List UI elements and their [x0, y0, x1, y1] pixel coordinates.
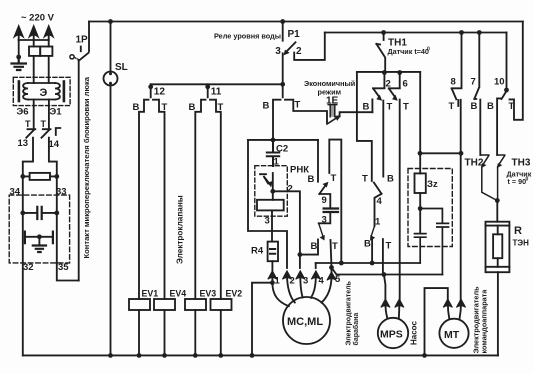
svg-text:В: В [311, 241, 318, 252]
node link c8 [459, 151, 464, 156]
contact 2 B tick [371, 99, 373, 112]
wire 14 down [49, 138, 57, 177]
svg-text:1: 1 [375, 217, 381, 228]
svg-text:Т: Т [41, 119, 47, 129]
wire bus to SL [110, 22, 112, 72]
wire MPS left into circle [385, 303, 387, 319]
timer motor MT [439, 319, 468, 348]
node switch 12 [148, 84, 153, 89]
arrow motor1 [268, 271, 277, 279]
arrow MT left [443, 299, 452, 307]
wire P1-3 down [282, 53, 284, 97]
wire 34 down [22, 176, 24, 263]
node 34 top [20, 174, 25, 179]
switch 1E plunger [330, 105, 335, 117]
wire motor1 into circle [272, 283, 288, 307]
contact 1 T tick down [382, 239, 384, 274]
wire plug to filter R [48, 40, 50, 83]
contact 10 blade [502, 92, 507, 100]
svg-text:9: 9 [322, 195, 327, 206]
svg-text:Т: Т [449, 101, 455, 112]
column1 B top wire [317, 140, 319, 182]
program row bus [151, 83, 283, 85]
node RNK 2 [270, 189, 275, 194]
wire plug to filter L [33, 40, 35, 83]
wire 35 to door switch [57, 263, 79, 281]
svg-text:32: 32 [23, 262, 34, 273]
node C2 junction [271, 138, 276, 143]
contact 6 blade [389, 88, 400, 97]
svg-text:Т: Т [509, 101, 515, 112]
wire motor3 into circle [300, 274, 302, 298]
svg-text:Э1: Э1 [50, 107, 63, 118]
wire RNK blade to node2 [272, 173, 274, 191]
node contact7 [477, 30, 482, 35]
mains arrow M [30, 27, 38, 41]
3z box dashed [408, 169, 452, 247]
svg-text:Т: Т [332, 241, 338, 252]
svg-text:Насос: Насос [410, 321, 419, 345]
feed row to contacts 2 6 [357, 71, 420, 73]
capacitor bridge plates [37, 207, 41, 219]
svg-text:MPS: MPS [380, 329, 403, 341]
contact 2 stub [383, 73, 385, 89]
svg-text:В: В [471, 101, 478, 112]
svg-text:Т: Т [25, 119, 31, 129]
solenoid valve EV3 [185, 299, 206, 310]
contact 10 B bracket [497, 98, 501, 155]
wire 32 to bottom bus [22, 263, 24, 356]
svg-text:3: 3 [275, 46, 281, 57]
inductor winding L [23, 83, 28, 100]
sub bus [325, 32, 507, 34]
wire junction to heater [496, 201, 498, 222]
svg-text:МТ: МТ [444, 329, 460, 341]
wire EV1 to bus [138, 310, 140, 355]
wire line1 to motor4 [315, 263, 317, 268]
switch 1P actuator [70, 55, 74, 59]
svg-text:EV2: EV2 [226, 289, 243, 299]
node contact6 [397, 70, 402, 75]
svg-text:Э: Э [40, 87, 48, 99]
node ground [16, 55, 21, 60]
arrow MPS right [395, 299, 404, 307]
svg-text:1: 1 [275, 276, 281, 287]
ground 2 [33, 246, 46, 253]
node TH1 [381, 30, 386, 35]
svg-text:12: 12 [154, 87, 166, 98]
svg-text:2: 2 [288, 184, 293, 195]
wire R4 to motor1 [271, 261, 273, 283]
mains header wire [19, 39, 49, 41]
arrow motor5 [327, 272, 336, 280]
svg-text:EV1: EV1 [142, 289, 159, 299]
relay contact P1 [287, 42, 296, 51]
connector block X1 [29, 47, 40, 56]
wire MT left [425, 288, 448, 355]
selector below P1 contact B [273, 100, 281, 140]
wire SL to bottom bus [110, 86, 112, 356]
switch 11 contact B [195, 100, 205, 299]
top bus [89, 21, 523, 23]
wire contact8 to MT [460, 100, 462, 303]
contact 8 [452, 33, 462, 107]
wire RNK3 to R4 [271, 210, 273, 241]
capacitor 3z right [420, 209, 448, 275]
svg-text:ТН3: ТН3 [512, 158, 531, 169]
filter box dashed [13, 77, 70, 105]
svg-text:ТЭН: ТЭН [513, 239, 530, 248]
contact 4 blade [374, 183, 382, 194]
svg-text:Электродвигатель: Электродвигатель [346, 280, 353, 345]
capacitor C2 [267, 140, 279, 166]
svg-text:3: 3 [265, 216, 270, 227]
svg-text:Т: Т [362, 174, 368, 185]
svg-text:В: В [189, 102, 196, 113]
node line2 MPS [382, 272, 387, 277]
wire feedrow to T top col2 [357, 72, 372, 181]
wire 3z to caps [419, 193, 421, 233]
resistor 3z [415, 173, 426, 193]
solenoid valve EV4 [154, 299, 175, 310]
RNK contact blade [260, 174, 272, 185]
wire filter to contact14 [48, 100, 50, 128]
svg-text:EV4: EV4 [170, 289, 187, 299]
svg-text:Р1: Р1 [288, 29, 301, 40]
wire heater to bus [497, 272, 499, 355]
svg-text:Т: Т [295, 100, 301, 111]
lamp SL [104, 72, 118, 86]
pump MPS [378, 318, 408, 348]
node EV1 bus [137, 353, 142, 358]
resistor R4 [268, 242, 278, 262]
capacitor bridge wire [23, 212, 57, 214]
ground [12, 57, 26, 70]
relay coil RNK [257, 200, 284, 211]
capacitor col1 [324, 209, 338, 213]
wire 13 down [23, 138, 33, 177]
switch 1P blade [79, 47, 89, 61]
node motor1 bus [250, 353, 255, 358]
svg-text:3: 3 [322, 215, 327, 226]
svg-text:11: 11 [211, 87, 222, 98]
svg-text:SL: SL [115, 62, 128, 73]
node EV2 bus [218, 353, 223, 358]
arrow motor3 [296, 271, 305, 279]
node SL bottom [108, 353, 113, 358]
wire bus to P1 [282, 22, 284, 41]
line2 wire [332, 268, 443, 275]
wire contact4 to contact1 [375, 194, 382, 226]
svg-text:В: В [364, 239, 371, 250]
svg-text:Реле уровня воды: Реле уровня воды [214, 32, 281, 41]
node motor1 [270, 280, 275, 285]
wire contact7 to TH2 [479, 100, 481, 155]
contact 3 B tick down [317, 240, 319, 250]
svg-text:34: 34 [10, 187, 21, 198]
connector block X2 [40, 47, 52, 56]
inductor winding R [55, 83, 60, 100]
svg-text:2: 2 [290, 276, 295, 287]
wire motor5 stub [331, 268, 333, 273]
switch 12 contact B [139, 100, 149, 299]
motor MC ML [283, 297, 330, 344]
node SL top [108, 19, 113, 24]
svg-text:В: В [133, 102, 140, 113]
wire MPS right into circle [398, 303, 401, 319]
svg-text:4: 4 [319, 276, 325, 287]
svg-text:MC,ML: MC,ML [287, 316, 323, 328]
node line1 col2B [370, 261, 375, 266]
mains arrow L [15, 27, 23, 41]
wire 3z to c8 line [420, 152, 461, 154]
svg-text:~ 220 V: ~ 220 V [21, 13, 55, 24]
bottom bus [23, 354, 498, 356]
svg-text:t = 90: t = 90 [508, 177, 527, 186]
switch 12 contact T [153, 100, 165, 299]
svg-text:6: 6 [403, 79, 408, 90]
node heater top [495, 198, 500, 203]
svg-text:Т: Т [162, 102, 168, 113]
svg-text:барабана: барабана [352, 313, 360, 346]
switch 1E blade [327, 118, 337, 124]
wire cap to contact3 [319, 212, 331, 223]
wire motor1 to bus [252, 283, 272, 356]
svg-text:13: 13 [18, 138, 29, 149]
wire MT left into circle [448, 303, 450, 319]
arrow MT right [456, 299, 465, 307]
solenoid valve EV1 [129, 299, 150, 310]
capacitor pair to ground plates [25, 232, 53, 244]
wire motor2 into circle [287, 274, 295, 303]
switch 11 stub [207, 84, 209, 97]
wire RNK coil top [272, 191, 274, 200]
svg-text:РНК: РНК [290, 165, 309, 176]
thermostat TH3 [497, 155, 505, 201]
svg-text:R4: R4 [251, 246, 264, 257]
switch 12 stub [150, 84, 152, 97]
svg-text:2: 2 [296, 46, 302, 57]
wire C2 row [248, 139, 318, 141]
contact 1 B tick down [371, 240, 373, 264]
svg-text:Э6: Э6 [17, 107, 29, 118]
svg-text:0: 0 [427, 47, 430, 53]
contact 10 feed [506, 33, 508, 90]
thermostat TH1 [376, 33, 385, 73]
wire 1E out [340, 112, 373, 116]
svg-text:10: 10 [494, 77, 505, 88]
node EV3 bus [193, 353, 198, 358]
wire EV4 to bus [164, 310, 166, 355]
node contact10 [504, 88, 509, 93]
contact 3 blade [319, 223, 324, 239]
svg-text:5: 5 [335, 274, 341, 285]
wire MT right into circle [460, 303, 462, 319]
mains arrow R [45, 27, 53, 41]
resistor 3z feed [419, 72, 421, 173]
contact 6 T wire down to MPS [399, 100, 401, 303]
wire resistor leads [23, 175, 57, 177]
wire MPS left [384, 275, 386, 306]
suppressor box dashed [9, 195, 69, 263]
filter Э core R [63, 82, 66, 102]
wire 1P down [78, 61, 80, 281]
node P1 top [280, 19, 285, 24]
node EV4 bus [162, 353, 167, 358]
node cap R [54, 211, 59, 216]
node motor5 [329, 265, 334, 270]
wire filter to contact13 [33, 100, 35, 128]
heater R inner [493, 234, 502, 258]
svg-text:EV3: EV3 [200, 289, 217, 299]
node cap mid [37, 234, 42, 239]
svg-text:4: 4 [377, 196, 383, 207]
node 33 top [54, 174, 59, 179]
wire P1-2 to sub bus [294, 33, 325, 60]
contact 3 T tick down [331, 240, 332, 268]
switch 11 contact T [210, 100, 221, 299]
contact 2 blade [373, 88, 384, 97]
node 3z caps [418, 206, 423, 211]
svg-text:Датчик t=40: Датчик t=40 [388, 47, 429, 56]
svg-text:0: 0 [526, 177, 529, 183]
svg-text:В: В [363, 102, 370, 113]
contact 1 blade [371, 226, 375, 240]
wire motor3 stub [299, 255, 301, 268]
contact 2 T wire down [382, 101, 384, 177]
svg-text:Т: Т [218, 102, 224, 113]
svg-text:Зz: Зz [427, 179, 438, 190]
svg-text:35: 35 [58, 262, 69, 273]
svg-text:командоаппарата: командоаппарата [480, 289, 489, 354]
wire EV2 to bus [220, 310, 222, 355]
contact 7 [474, 33, 479, 100]
filter Э core L [18, 82, 21, 102]
wire 33 down [56, 176, 58, 263]
svg-text:8: 8 [451, 77, 456, 88]
filter top rail [28, 82, 55, 84]
wire cap mid to ground [38, 237, 40, 245]
node cap L [20, 211, 25, 216]
line1 wire [316, 262, 420, 264]
svg-text:Т: Т [331, 173, 337, 184]
arrow motor2 [282, 271, 291, 279]
capacitor pair bridge wire [27, 236, 52, 238]
svg-text:Контакт микропереключателя бло: Контакт микропереключателя блокировки лю… [82, 76, 91, 258]
capacitor 3z left [415, 234, 426, 263]
arrow MPS left [381, 299, 390, 307]
node 3z link [418, 151, 423, 156]
svg-text:R: R [514, 225, 522, 237]
ground lead wire [18, 40, 20, 57]
column1 T top bridge [329, 140, 341, 263]
svg-text:1Р: 1Р [76, 35, 89, 46]
heater R body [486, 222, 510, 273]
resistor bridge [30, 173, 50, 180]
svg-text:В: В [308, 174, 315, 185]
wire motor4 into circle [311, 274, 316, 298]
svg-text:Т: Т [386, 241, 392, 252]
contact 13 blade [26, 129, 35, 138]
svg-text:В: В [387, 174, 394, 185]
RNK box dashed [255, 166, 287, 217]
contact 9 blade [319, 186, 330, 208]
node MT bus [422, 353, 427, 358]
svg-text:В: В [263, 101, 270, 112]
wire EV3 to bus [194, 310, 196, 355]
node contact2 [382, 70, 387, 75]
node line1 col1T [339, 261, 344, 266]
thermostat TH2 [481, 155, 498, 201]
svg-text:ТН2: ТН2 [465, 158, 484, 169]
svg-text:14: 14 [49, 139, 60, 150]
wire RNK2 to motor3 junction [273, 191, 300, 254]
node motor3 junction [298, 252, 303, 257]
solenoid valve EV2 [211, 299, 232, 310]
wire bus to 1P [88, 22, 90, 52]
filter bottom rail [28, 99, 55, 101]
contact 10 T bracket [510, 22, 523, 120]
wire motor5 into circle [322, 276, 332, 303]
contact 6 stub [399, 73, 401, 89]
svg-text:Электроклапаны: Электроклапаны [176, 195, 185, 264]
svg-text:Т: Т [387, 102, 393, 113]
wire motor3 junction to B3 [300, 250, 318, 255]
svg-text:Т: Т [403, 102, 409, 113]
svg-text:7: 7 [471, 77, 476, 88]
svg-text:В: В [487, 101, 494, 112]
svg-text:3: 3 [303, 276, 308, 287]
selector below P1 contact T [285, 100, 327, 123]
node switch 11 [205, 84, 210, 89]
wire C2row to motor2 [248, 140, 287, 268]
arrow motor4 [311, 271, 320, 279]
node contact8 [459, 30, 464, 35]
node P1-3 at row bus [280, 82, 285, 87]
contact 14 blade [42, 128, 61, 138]
